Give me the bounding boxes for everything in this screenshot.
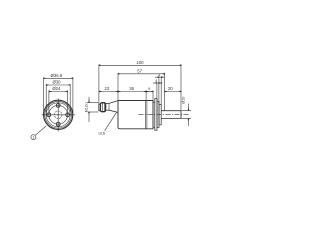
extension line right Ø24: [67, 90, 69, 113]
circle Ø24 (screw pitch circle): [49, 105, 68, 124]
dimension line Ø36.5: [44, 77, 73, 79]
arrow lower M12x1: [88, 112, 90, 122]
connector groove top: [153, 101, 155, 103]
dimension line 36: [118, 91, 146, 93]
arrow right 4 upper: [161, 76, 164, 78]
crosshair horizontal: [42, 114, 75, 116]
extension line top Ø10: [182, 110, 192, 112]
extension line right 4 upper: [160, 78, 162, 104]
screw circle N: [56, 104, 60, 108]
extension line left 57: [117, 73, 119, 101]
arrow upper M12x1: [88, 97, 90, 103]
center dot: [58, 114, 59, 115]
outer body circle Ø36.5: [44, 100, 73, 129]
cone top: [109, 101, 118, 104]
dimension Ø36.5: [44, 77, 73, 113]
extension line right Ø30: [69, 84, 71, 114]
svg-text:Ø36.5: Ø36.5: [51, 73, 63, 78]
svg-text:4: 4: [155, 79, 157, 83]
balloon leader line: [35, 126, 46, 136]
arrow left 4 upper: [155, 76, 159, 78]
screw circle S: [56, 122, 60, 126]
extension line bottom M12x1: [88, 111, 99, 113]
extension line right 57: [164, 73, 166, 111]
LED leader: [105, 112, 117, 131]
dimension line Ø30: [46, 84, 70, 86]
svg-text:Ø30: Ø30: [52, 80, 61, 85]
dimension Ø10: [182, 104, 192, 126]
extension line right 9: [152, 90, 154, 100]
head barrel (thick cap): [100, 103, 105, 112]
extension line left 4 lower: [156, 84, 158, 101]
barrel inner line b: [103, 103, 105, 112]
svg-text:Ø10: Ø10: [182, 97, 186, 104]
svg-text:Ø24: Ø24: [52, 86, 61, 91]
svg-text:LED: LED: [98, 131, 105, 135]
cone bottom: [109, 110, 118, 112]
arrow lower Ø10: [187, 119, 189, 126]
dimension Ø30: [46, 84, 70, 114]
extension line left Ø30: [45, 84, 47, 114]
sensing tip stub bottom: [99, 110, 101, 112]
dimension line 4 lower: [157, 82, 159, 84]
svg-text:9: 9: [148, 87, 150, 91]
shaft end face: [180, 111, 182, 119]
dimension 100: [99, 64, 181, 110]
dimension line 100: [99, 64, 181, 66]
dimension line 9: [146, 91, 153, 93]
dimension line 20: [165, 91, 181, 93]
svg-text:57: 57: [137, 69, 142, 74]
dimension Ø24: [49, 90, 68, 113]
extension line bottom Ø10: [182, 118, 192, 120]
dimension M12x1: [88, 97, 99, 122]
extension line right 36: [145, 90, 147, 100]
extension line top M12x1: [88, 101, 99, 103]
body outline: [118, 101, 153, 129]
sensing tip face: [98, 104, 100, 111]
ring B: [157, 101, 159, 127]
svg-text:1: 1: [32, 136, 34, 140]
screw circle W: [47, 113, 51, 117]
dimension 20: [165, 91, 181, 93]
dimension 36: [118, 90, 146, 100]
chamfer ring: [45, 101, 72, 128]
neck end vertical: [108, 103, 110, 110]
svg-text:23: 23: [104, 86, 109, 91]
extension line left 100: [98, 64, 100, 103]
svg-text:36: 36: [129, 86, 134, 91]
barrel inner line a: [101, 103, 103, 112]
body groove line b: [146, 101, 148, 129]
dimension 4 upper: [155, 77, 165, 104]
crosshair vertical: [57, 98, 59, 131]
neck top: [106, 102, 109, 104]
dimension line 23: [99, 91, 118, 93]
neck bottom: [106, 109, 109, 111]
svg-text:20: 20: [168, 86, 173, 91]
dimension 23: [99, 91, 118, 93]
dimension 9: [146, 90, 153, 100]
extension line left Ø24: [48, 90, 50, 113]
extension line left Ø36.5: [43, 77, 45, 113]
arrow left 4 lower: [153, 82, 157, 84]
svg-text:100: 100: [136, 60, 144, 65]
centerline: [139, 114, 189, 116]
body groove line a: [144, 101, 146, 129]
dimension line Ø24: [49, 91, 68, 93]
dimension 4 lower: [153, 83, 163, 101]
extension line left 4 upper: [158, 78, 160, 104]
dimension line 4 upper: [159, 76, 161, 78]
connector groove bottom: [153, 126, 155, 128]
center dashed circle: [54, 111, 62, 119]
dimension 57: [118, 73, 165, 111]
ring C: [159, 104, 161, 124]
flange ring tall: [155, 99, 157, 131]
svg-text:4: 4: [158, 73, 160, 77]
balloon circle 1: [31, 135, 36, 140]
sensing tip stub top: [99, 103, 101, 105]
screw circle E: [66, 113, 70, 117]
thread circle Ø30: [46, 103, 70, 127]
arrow upper Ø10: [187, 104, 189, 111]
shaft bottom: [161, 118, 181, 120]
extension line right 100: [180, 64, 182, 110]
arrow right 4 lower: [159, 82, 163, 84]
svg-text:M12x1: M12x1: [84, 102, 88, 113]
shaft top: [161, 110, 181, 112]
dimension line 57: [118, 73, 165, 75]
extension line right Ø36.5: [72, 77, 74, 113]
